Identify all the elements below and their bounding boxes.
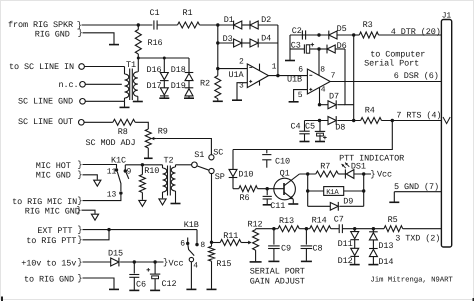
svg-text:to RIG PTT: to RIG PTT bbox=[26, 236, 76, 246]
svg-text:Vcc: Vcc bbox=[169, 258, 184, 268]
svg-text:7 RTS (4): 7 RTS (4) bbox=[396, 111, 441, 121]
svg-text:to RIG MIC IN: to RIG MIC IN bbox=[12, 197, 77, 207]
wire MIC HOT to K1C pin 11 bbox=[83, 165, 117, 169]
wire diode bridge right rail / feedback bbox=[277, 25, 279, 76]
wire to RIG GND stub bbox=[83, 278, 115, 289]
svg-text:EXT PTT: EXT PTT bbox=[37, 226, 72, 236]
K1C contact arm bbox=[117, 172, 121, 191]
ground D14 bbox=[368, 264, 378, 266]
wire DTR row bbox=[290, 34, 329, 36]
svg-text:K1A: K1A bbox=[326, 189, 339, 197]
svg-text:6 DSR (6): 6 DSR (6) bbox=[394, 71, 439, 81]
svg-text:SERIAL PORT: SERIAL PORT bbox=[250, 267, 305, 277]
svg-text:}: } bbox=[77, 273, 82, 283]
svg-text:C6: C6 bbox=[136, 280, 146, 290]
ground U1B pin5 bbox=[289, 101, 299, 103]
svg-text:SC LINE GND: SC LINE GND bbox=[18, 97, 73, 107]
svg-text:D4: D4 bbox=[261, 34, 271, 44]
svg-text:D16: D16 bbox=[147, 65, 162, 75]
svg-text:D17: D17 bbox=[147, 81, 162, 91]
svg-text:R16: R16 bbox=[148, 38, 163, 48]
wire K1C pin9 to R10 and T2 bbox=[125, 164, 162, 166]
svg-text:8: 8 bbox=[320, 66, 325, 75]
svg-text:RIG MIC GND: RIG MIC GND bbox=[25, 206, 80, 216]
svg-text:}: } bbox=[163, 257, 168, 267]
ground Q1 emitter bbox=[288, 203, 298, 205]
svg-text:D5: D5 bbox=[337, 24, 347, 34]
wire D16 D18 top rail bbox=[138, 57, 189, 59]
svg-text:}: } bbox=[77, 257, 82, 267]
ground C5 bbox=[315, 141, 325, 143]
ground D12 bbox=[350, 264, 360, 266]
svg-text:}: } bbox=[78, 28, 83, 38]
ground D17 bbox=[159, 97, 169, 99]
svg-text:6: 6 bbox=[298, 65, 303, 74]
wire TXD row bbox=[256, 228, 278, 230]
wire collector to R7 bbox=[299, 173, 315, 175]
wire TXD to J1 bbox=[403, 228, 442, 230]
svg-text:Serial Port: Serial Port bbox=[364, 59, 419, 69]
svg-text:R9: R9 bbox=[158, 126, 168, 136]
svg-text:3 TXD (2): 3 TXD (2) bbox=[395, 234, 440, 244]
wire U1B pin5 to ground bbox=[294, 90, 308, 102]
svg-text:n.c.: n.c. bbox=[59, 80, 79, 90]
svg-text:R3: R3 bbox=[363, 20, 373, 30]
wire C2 ground rail bbox=[289, 35, 291, 60]
connector J1 polarity arrow bbox=[443, 117, 450, 124]
svg-text:C12: C12 bbox=[162, 279, 177, 289]
svg-text:R8: R8 bbox=[118, 127, 128, 137]
svg-text:C11: C11 bbox=[270, 201, 285, 211]
svg-text:T1: T1 bbox=[126, 60, 136, 70]
wire GND to J1 bbox=[394, 191, 441, 193]
svg-text:R7: R7 bbox=[320, 161, 330, 171]
svg-text:5 GND (7): 5 GND (7) bbox=[394, 182, 439, 192]
svg-text:4 DTR (20): 4 DTR (20) bbox=[391, 27, 441, 37]
K1B contact arm bbox=[188, 245, 194, 256]
ground C6 bbox=[129, 289, 139, 291]
wire K1A left rail bbox=[307, 174, 309, 206]
wire D15 to Vcc bbox=[120, 261, 163, 263]
svg-text:C9: C9 bbox=[281, 243, 291, 253]
svg-text:D14: D14 bbox=[378, 257, 393, 267]
ground R15 bbox=[207, 288, 217, 290]
wire DTR to J1 bbox=[379, 34, 442, 36]
svg-text:D18: D18 bbox=[171, 65, 186, 75]
wire R9 wiper to S1 SC bbox=[153, 138, 157, 140]
svg-text:R11: R11 bbox=[223, 231, 238, 241]
svg-text:1: 1 bbox=[272, 63, 277, 72]
svg-text:11: 11 bbox=[107, 168, 117, 177]
svg-text:PTT INDICATOR: PTT INDICATOR bbox=[339, 154, 404, 164]
svg-text:C1: C1 bbox=[150, 8, 160, 18]
ground R2 bbox=[213, 100, 223, 102]
svg-text:D7: D7 bbox=[329, 92, 339, 102]
wire RTS to J1 bbox=[382, 120, 442, 122]
svg-text:S1: S1 bbox=[194, 150, 204, 160]
wire to RIG PTT joins EXT PTT bbox=[83, 230, 110, 240]
wire SP down to PTT switch rail bbox=[211, 174, 213, 243]
svg-text:7: 7 bbox=[331, 72, 336, 81]
svg-text:}: } bbox=[77, 170, 82, 180]
wire MIC GND to ground arrow bbox=[83, 175, 98, 180]
svg-text:R1: R1 bbox=[183, 8, 193, 18]
wire RTS down to PTT circuit bbox=[233, 121, 392, 150]
ground C11 bbox=[263, 204, 272, 206]
wire T2 to S1 bbox=[176, 164, 192, 166]
svg-text:Q1: Q1 bbox=[280, 169, 290, 179]
svg-text:D13: D13 bbox=[378, 241, 393, 251]
ground to RIG GND bbox=[109, 288, 119, 290]
svg-text:R5: R5 bbox=[388, 215, 398, 225]
svg-text:to SC LINE IN: to SC LINE IN bbox=[9, 62, 74, 72]
svg-text:8: 8 bbox=[200, 241, 205, 250]
ground R12 bbox=[250, 261, 262, 263]
svg-text:D8: D8 bbox=[335, 123, 345, 133]
svg-text:R2: R2 bbox=[200, 78, 210, 88]
svg-text:RIG GND: RIG GND bbox=[35, 29, 70, 39]
svg-text:SC LINE OUT: SC LINE OUT bbox=[18, 117, 73, 127]
svg-text:C8: C8 bbox=[313, 243, 323, 253]
wire EXT PTT to K1B bbox=[83, 229, 198, 231]
wire LED to Vcc bbox=[354, 173, 371, 175]
svg-text:}: } bbox=[77, 196, 82, 206]
svg-text:D10: D10 bbox=[238, 169, 253, 179]
wire U1B pin8 power bbox=[318, 49, 320, 75]
svg-text:R6: R6 bbox=[240, 193, 250, 203]
svg-text:D11: D11 bbox=[338, 239, 353, 249]
svg-text:SC: SC bbox=[213, 148, 223, 158]
svg-text:C7: C7 bbox=[334, 214, 344, 224]
wire diode bridge left rail bbox=[217, 25, 219, 69]
wire U1B pin4 power bbox=[319, 88, 321, 105]
svg-text:D19: D19 bbox=[171, 81, 186, 91]
svg-text:GAIN ADJUST: GAIN ADJUST bbox=[250, 277, 305, 287]
svg-text:+10v to 15v: +10v to 15v bbox=[21, 259, 76, 269]
svg-text:R10: R10 bbox=[144, 166, 159, 176]
svg-text:SC MOD ADJ: SC MOD ADJ bbox=[86, 138, 136, 148]
svg-text:D1: D1 bbox=[224, 15, 234, 25]
svg-text:}: } bbox=[77, 160, 82, 170]
svg-text:MIC HOT: MIC HOT bbox=[36, 161, 71, 171]
ground D19 bbox=[184, 97, 194, 99]
svg-text:Vcc: Vcc bbox=[377, 169, 392, 179]
ground R9 bbox=[144, 157, 153, 159]
wire rail D5 down bbox=[353, 35, 355, 121]
svg-text:C2: C2 bbox=[292, 26, 302, 36]
ground C4 bbox=[300, 141, 310, 143]
relay coil K1A bbox=[308, 190, 324, 192]
svg-text:R12: R12 bbox=[248, 219, 263, 229]
svg-text:R14: R14 bbox=[312, 216, 327, 226]
svg-text:}: } bbox=[370, 169, 375, 179]
svg-text:T2: T2 bbox=[164, 156, 174, 166]
ground T1 secondary bbox=[133, 101, 143, 103]
svg-text:6: 6 bbox=[180, 240, 185, 249]
wire RIG GND bbox=[83, 33, 115, 44]
wire K1A right rail bbox=[363, 174, 365, 206]
ground T2 secondary bbox=[171, 203, 181, 205]
wire from RIG SPKR to C1 bbox=[82, 24, 153, 26]
svg-text:D2: D2 bbox=[261, 15, 271, 25]
svg-text:}: } bbox=[77, 225, 82, 235]
ground U1A pin3 bbox=[232, 99, 242, 101]
svg-text:}: } bbox=[76, 206, 81, 216]
svg-text:D3: D3 bbox=[223, 34, 233, 44]
svg-text:}: } bbox=[77, 235, 82, 245]
svg-text:Jim Mitrenga, N9ART: Jim Mitrenga, N9ART bbox=[370, 275, 453, 284]
svg-text:U1B: U1B bbox=[287, 74, 302, 84]
svg-text:13: 13 bbox=[107, 191, 117, 200]
svg-text:R15: R15 bbox=[216, 259, 231, 269]
svg-text:to RIG GND: to RIG GND bbox=[24, 275, 74, 285]
ground C12 bbox=[150, 289, 160, 291]
wire R1 to diode network bbox=[200, 24, 218, 26]
wire +10v to D15 bbox=[83, 261, 111, 263]
svg-text:U1A: U1A bbox=[229, 70, 245, 80]
svg-text:C10: C10 bbox=[275, 157, 290, 167]
ground RIG GND bbox=[109, 44, 119, 46]
svg-text:5: 5 bbox=[298, 91, 303, 100]
ground SC LINE GND bbox=[120, 106, 130, 108]
svg-text:R4: R4 bbox=[365, 106, 375, 116]
svg-text:4: 4 bbox=[321, 85, 326, 94]
svg-text:K1B: K1B bbox=[184, 220, 199, 230]
svg-text:R13: R13 bbox=[279, 216, 294, 226]
wire K1B pin4 to ground bbox=[190, 262, 192, 289]
svg-text:C4: C4 bbox=[291, 122, 301, 132]
ground GND stub bbox=[389, 201, 399, 203]
svg-text:SP: SP bbox=[215, 172, 225, 182]
wire U1B output DSR bbox=[330, 81, 441, 83]
svg-text:4: 4 bbox=[193, 261, 198, 270]
svg-text:D9: D9 bbox=[343, 196, 353, 206]
svg-text:MIC GND: MIC GND bbox=[36, 171, 71, 181]
svg-text:C5: C5 bbox=[305, 122, 315, 132]
wire rail D6 down bbox=[345, 49, 354, 105]
ground C8 bbox=[301, 260, 312, 262]
ground C2/C3 rail bbox=[285, 60, 295, 62]
svg-text:2: 2 bbox=[239, 58, 244, 67]
ground C9 bbox=[268, 260, 279, 262]
wire RIG MIC GND to ground arrow bbox=[82, 210, 96, 213]
